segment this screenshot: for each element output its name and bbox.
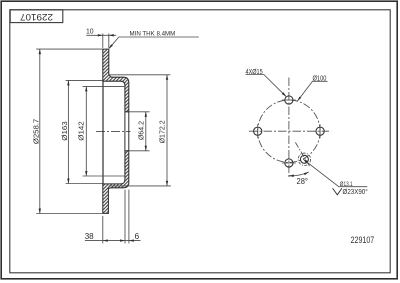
D100 leader — [297, 81, 327, 101]
bolt hole bottom — [282, 159, 296, 167]
section centerline — [96, 130, 131, 132]
hub vertical centerline — [288, 78, 290, 179]
dim 10 dimension line — [86, 34, 116, 36]
hat cavity edge line — [102, 81, 104, 184]
svg-text:Ø163: Ø163 — [60, 121, 69, 141]
bolt circle — [258, 100, 320, 162]
svg-text:229107: 229107 — [351, 235, 375, 245]
dim D64.2 text — [137, 121, 146, 140]
svg-text:4XØ15: 4XØ15 — [246, 67, 263, 76]
disc section lower half — [103, 151, 129, 214]
dim D142 dimension line — [85, 86, 87, 176]
28 deg arc arrows — [289, 172, 309, 177]
locating hole radial centerline — [295, 142, 309, 166]
bolt hole left — [254, 124, 262, 138]
dim D142 extension lines — [83, 86, 125, 176]
dim D64.2 dimension line — [145, 112, 147, 151]
svg-text:Ø258.7: Ø258.7 — [31, 119, 40, 144]
bolt hole top — [282, 96, 296, 104]
title box — [10, 10, 63, 23]
svg-text:Ø64.2: Ø64.2 — [137, 121, 146, 140]
dim D258.7 arrows — [39, 49, 41, 213]
disc section upper half — [103, 49, 129, 112]
svg-text:Ø172.2: Ø172.2 — [158, 120, 167, 143]
dim 10 text — [86, 26, 94, 35]
bolt hole right — [316, 124, 324, 138]
dim D163 arrows — [67, 80, 69, 183]
min thk text — [130, 31, 176, 38]
dim D142 text — [76, 121, 85, 141]
dim 38 extension lines — [103, 190, 129, 244]
min thk leader — [109, 37, 199, 49]
dim D64.2 arrows — [145, 112, 147, 151]
4XD15 leader — [246, 75, 287, 97]
D23X90 text — [343, 187, 368, 196]
D100 text — [313, 74, 327, 83]
28 deg arc — [289, 172, 309, 176]
D13.1 leader — [303, 159, 367, 186]
dim D64.2 extension lines — [129, 112, 149, 151]
svg-text:38: 38 — [85, 231, 94, 241]
svg-text:229107: 229107 — [20, 11, 53, 22]
countersink symbol — [333, 188, 342, 195]
svg-text:6: 6 — [134, 231, 139, 241]
dim 6 text — [134, 231, 139, 241]
svg-text:Ø142: Ø142 — [76, 121, 85, 141]
28 deg text — [297, 177, 308, 186]
dim D172.2 arrows — [166, 75, 168, 186]
dim 38 arrows — [103, 239, 125, 241]
dim 10 extension lines — [103, 34, 109, 48]
svg-text:Ø100: Ø100 — [313, 74, 327, 83]
dim 38 text — [85, 231, 94, 241]
dim D163 extension lines — [66, 80, 103, 183]
dim D258.7 text — [31, 119, 40, 144]
bore wall lines through hub face — [125, 112, 129, 151]
svg-text:10: 10 — [86, 26, 94, 35]
dim D172.2 extension lines — [109, 75, 171, 186]
4XD15 text — [246, 67, 263, 76]
dim 38 dimension line — [85, 240, 141, 242]
dim 6 arrow — [129, 239, 134, 241]
dim D163 dimension line — [67, 80, 69, 183]
svg-text:Ø23X90°: Ø23X90° — [343, 187, 368, 196]
dim D258.7 extension lines — [36, 49, 102, 213]
dim D172.2 dimension line — [166, 75, 168, 186]
svg-text:MIN THK 8.4MM: MIN THK 8.4MM — [130, 31, 176, 38]
dim 10 arrows — [98, 34, 114, 36]
dim D172.2 text — [158, 120, 167, 143]
hub horizontal centerline — [249, 130, 329, 132]
locating hole — [300, 155, 308, 163]
dim D142 arrows — [85, 86, 87, 176]
dim D163 text — [60, 121, 69, 141]
D13.1 text — [340, 181, 353, 188]
part number bottom right — [351, 235, 375, 245]
title text 229107 rotated 180 — [20, 11, 53, 22]
countersink circle — [298, 153, 310, 165]
dim D258.7 dimension line — [39, 49, 41, 213]
svg-text:28°: 28° — [297, 177, 308, 186]
